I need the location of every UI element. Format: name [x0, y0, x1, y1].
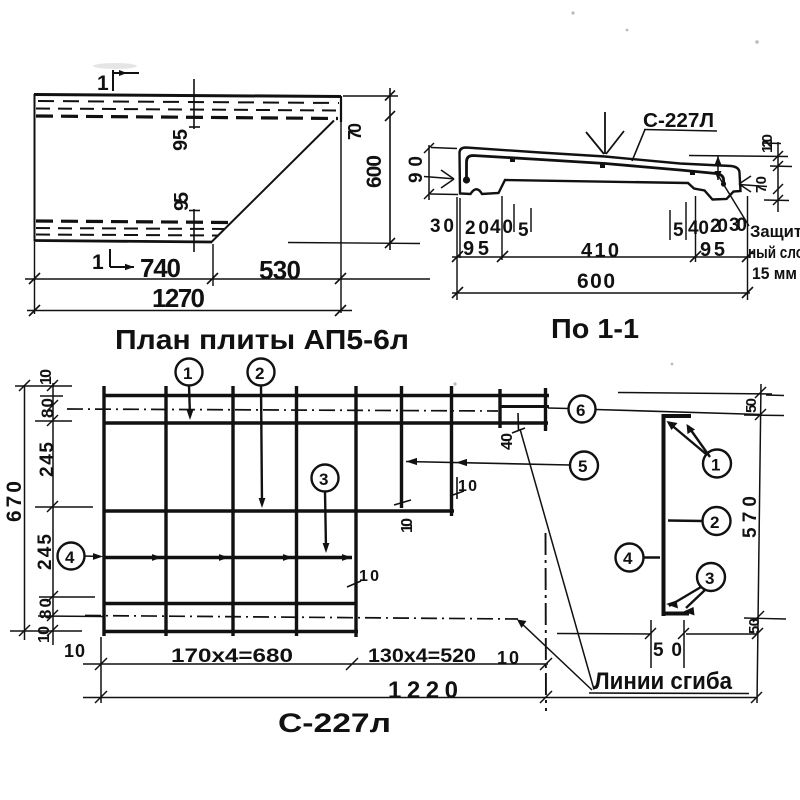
svg-text:3: 3 — [705, 569, 714, 588]
extension line bottom right — [288, 243, 420, 244]
callout circle 4 with leader and arrows — [58, 543, 85, 570]
svg-text:6: 6 — [576, 401, 585, 420]
svg-text:10: 10 — [38, 369, 55, 385]
small dim 10 at bar V6 end — [394, 500, 411, 505]
slab diagonal cut edge — [211, 121, 334, 243]
svg-text:70: 70 — [345, 123, 365, 140]
svg-text:50: 50 — [743, 398, 760, 413]
channel callout circle 4 — [616, 544, 661, 572]
section outer profile — [460, 148, 741, 200]
mesh title С-227л — [278, 708, 391, 738]
svg-text:4: 4 — [65, 548, 75, 567]
horizontal short bar H1b — [499, 405, 549, 408]
top arrow onto section — [586, 112, 624, 154]
small dim arrows inside right part of section — [717, 155, 719, 180]
vertical bar V4 — [295, 386, 298, 636]
extension line section left — [456, 197, 458, 300]
extension line bottom flange level — [744, 618, 786, 619]
svg-text:4: 4 — [623, 549, 633, 568]
svg-text:Защит: Защит — [750, 222, 800, 241]
bottom dim row 1220 — [83, 691, 756, 703]
dimension row 1270 — [27, 305, 352, 316]
horizontal bar H2 — [103, 421, 548, 424]
dimension 600 line right — [385, 88, 395, 250]
svg-text:15 мм: 15 мм — [752, 264, 797, 283]
left dim column inner line — [47, 380, 58, 645]
dimension label 600 — [363, 155, 386, 188]
svg-text:1: 1 — [92, 251, 104, 274]
callout circle 2 with leader — [248, 359, 275, 505]
svg-text:740: 740 — [140, 253, 181, 283]
vertical bar V3 — [231, 386, 234, 636]
svg-text:600: 600 — [577, 270, 615, 293]
plan title — [115, 324, 409, 355]
dimension 95 bottom — [189, 209, 200, 252]
right dims 120 and 70 — [689, 142, 792, 212]
extension line top right — [343, 95, 398, 97]
slab outline left edge — [34, 94, 36, 242]
section title По 1-1 — [551, 313, 639, 344]
svg-text:95: 95 — [171, 192, 193, 211]
vertical bar V6 — [400, 386, 403, 508]
svg-text:С-227Л: С-227Л — [643, 110, 714, 132]
top band heavy dashed row 3 — [36, 116, 338, 119]
fold line horizontal bottom (dash-dot) — [85, 616, 518, 620]
dimension row 600 section — [452, 287, 753, 298]
svg-text:245: 245 — [37, 442, 58, 477]
section mark 1 bottom — [110, 249, 134, 267]
left dim tick rows — [10, 386, 103, 631]
left dim labels — [3, 369, 58, 643]
svg-text:2: 2 — [710, 513, 719, 532]
bottom dim row 680/520 — [83, 658, 552, 670]
vertical bar V2 — [164, 386, 167, 636]
vertical bar V5 — [354, 386, 357, 637]
left dim column outer line 670 — [19, 380, 30, 640]
vertical bar V1 — [102, 386, 105, 636]
top band dashed row 1 — [38, 101, 339, 103]
bottom band dashed row 3 — [36, 235, 219, 236]
dimension 95 top — [189, 79, 200, 129]
svg-text:С-227л: С-227л — [278, 708, 391, 738]
bottom band heavy dashed row — [36, 221, 232, 223]
fold line vertical (dash-dot) — [545, 533, 548, 711]
bottom-right small dims 5 40 20 30 — [670, 196, 748, 300]
svg-text:По 1-1: По 1-1 — [551, 313, 639, 344]
dimension label 1270 — [152, 283, 205, 313]
channel bottom flange — [664, 612, 690, 616]
top band dashed row 2 — [36, 109, 339, 111]
channel callout circle 2 — [668, 507, 731, 535]
svg-text:1: 1 — [711, 456, 720, 475]
mesh bar dots in section — [463, 157, 726, 187]
svg-text:10: 10 — [497, 648, 519, 668]
dimension label 530 — [259, 255, 301, 285]
svg-text:10: 10 — [399, 518, 416, 533]
dim line 570 vertical — [751, 384, 766, 703]
leader to protective layer note — [716, 172, 749, 226]
extension line x213 — [212, 244, 214, 286]
horizontal bar H1 — [103, 394, 549, 397]
horizontal bar H4 — [103, 556, 352, 559]
slab outline bottom edge — [34, 241, 212, 243]
fold line horizontal top (dash-dot) — [67, 409, 498, 411]
bottom extension line x101 — [100, 637, 102, 703]
small dim 10 at bar H3 end — [450, 477, 464, 499]
svg-text:670: 670 — [3, 481, 26, 522]
small dim 10 at bar V5 — [347, 581, 361, 587]
svg-text:Линии сгиба: Линии сгиба — [594, 668, 733, 695]
svg-text:120: 120 — [759, 134, 776, 153]
svg-text:80: 80 — [38, 398, 57, 418]
dimension 90 left of section — [424, 143, 458, 200]
label 50 top — [743, 398, 760, 413]
svg-text:10: 10 — [458, 478, 477, 495]
vertical bar V8 — [498, 389, 501, 428]
svg-text:130х4=520: 130х4=520 — [368, 646, 476, 667]
horizontal bar H6 — [103, 630, 358, 633]
small dim 40 near top step — [512, 413, 525, 433]
horizontal bar H3 — [103, 509, 454, 512]
svg-text:600: 600 — [363, 155, 386, 188]
svg-text:10: 10 — [64, 641, 85, 661]
mesh C-227Л inside section (thick line) — [467, 156, 725, 187]
svg-text:245: 245 — [35, 534, 56, 570]
svg-text:10: 10 — [36, 626, 53, 643]
svg-text:410: 410 — [581, 240, 619, 262]
protective layer note text — [748, 222, 800, 283]
extension line flange level — [744, 414, 784, 417]
fold lines note with leaders — [519, 429, 594, 690]
svg-text:План плиты АП5-6л: План плиты АП5-6л — [115, 324, 409, 355]
slab outline top edge — [34, 95, 341, 97]
svg-text:1270: 1270 — [152, 283, 205, 313]
svg-text:3: 3 — [319, 470, 328, 489]
channel callout circle 1 — [669, 423, 731, 478]
label 50 bottom right — [746, 618, 763, 634]
bottom width dim 50 — [557, 620, 757, 668]
slab outline right edge (thick part) — [340, 96, 342, 122]
svg-text:40: 40 — [499, 433, 516, 450]
vertical bar V9 — [544, 388, 547, 431]
label С-227Л with leader — [643, 110, 714, 132]
svg-text:40: 40 — [490, 217, 513, 238]
section mark 1 top — [113, 70, 139, 91]
svg-text:5: 5 — [578, 457, 587, 476]
svg-text:ный сло: ный сло — [748, 243, 800, 262]
right arrow marker at section right face — [739, 176, 767, 192]
svg-text:5: 5 — [518, 220, 529, 241]
svg-text:5: 5 — [673, 220, 684, 241]
dimension label 740 — [140, 253, 181, 283]
extension line top from mesh — [618, 393, 784, 396]
svg-text:530: 530 — [259, 255, 301, 285]
faint scan smudge — [93, 63, 137, 69]
label 570 — [740, 496, 761, 538]
svg-text:95: 95 — [170, 129, 192, 151]
svg-text:170х4=680: 170х4=680 — [171, 646, 293, 667]
channel top flange — [664, 414, 692, 418]
callout circle 3 with leader — [312, 465, 339, 550]
callout circle 1 with leader — [176, 359, 203, 417]
svg-text:20: 20 — [710, 216, 728, 237]
dimension row 95 410 95 — [452, 251, 753, 262]
svg-text:40: 40 — [688, 218, 709, 239]
extension line x341 — [340, 122, 342, 313]
svg-text:50: 50 — [746, 618, 763, 634]
channel web — [662, 414, 666, 616]
svg-text:1: 1 — [97, 72, 109, 95]
callout circle 5 with leader — [570, 452, 598, 480]
svg-text:70: 70 — [753, 176, 770, 193]
callout circle 6 with leader — [569, 396, 596, 423]
scan specks — [453, 11, 758, 385]
extension line left x34 — [34, 242, 36, 314]
bottom-left small dims 30 20 40 5 — [460, 196, 531, 260]
svg-text:1: 1 — [183, 364, 192, 383]
horizontal bar H5 — [103, 602, 357, 605]
vertical bar V7 — [450, 386, 453, 516]
svg-text:2: 2 — [255, 364, 264, 383]
channel callout circle 3 — [669, 563, 725, 608]
dimension label 70 — [345, 123, 365, 140]
left arrow marker at section left face — [424, 170, 454, 188]
bottom band dashed row 2 — [36, 228, 225, 229]
dimension row 740 / 530 — [25, 273, 430, 284]
svg-text:570: 570 — [740, 496, 761, 538]
